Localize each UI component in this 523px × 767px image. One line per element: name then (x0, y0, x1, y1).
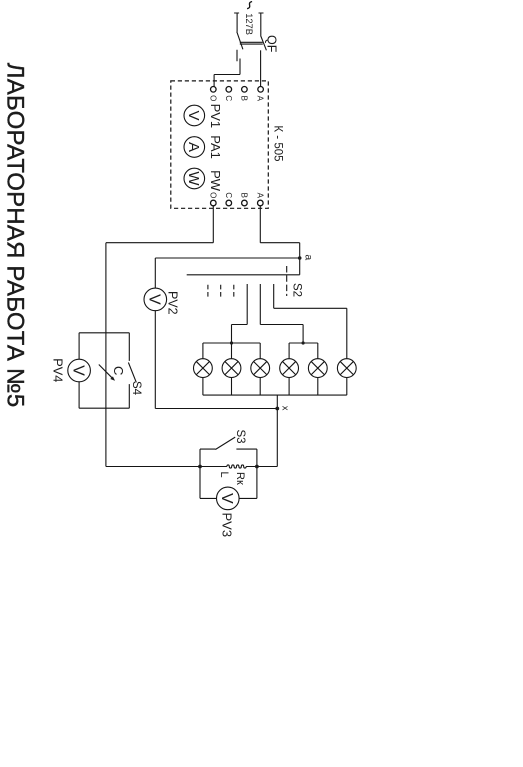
svg-text:V: V (146, 294, 163, 305)
svg-text:V: V (185, 110, 202, 120)
svg-text:W: W (185, 171, 202, 186)
svg-text:C: C (111, 366, 126, 375)
svg-text:Rк: Rк (234, 472, 246, 485)
svg-text:PV3: PV3 (219, 513, 234, 538)
svg-text:В: В (240, 193, 249, 198)
svg-text:127В: 127В (244, 13, 254, 35)
svg-text:ЛАБОРАТОРНАЯ РАБОТА №5: ЛАБОРАТОРНАЯ РАБОТА №5 (1, 63, 28, 408)
svg-text:a: a (302, 254, 314, 260)
svg-text:V: V (69, 365, 86, 376)
svg-text:PV2: PV2 (166, 291, 180, 315)
svg-text:A: A (185, 142, 202, 152)
svg-text:PW: PW (208, 170, 223, 192)
svg-text:С: С (224, 192, 233, 198)
svg-text:S2: S2 (290, 283, 302, 297)
svg-text:V: V (218, 493, 235, 504)
svg-text:S3: S3 (234, 430, 246, 444)
svg-text:С: С (224, 95, 233, 101)
svg-text:О: О (208, 95, 217, 101)
svg-text:К - 505: К - 505 (271, 125, 283, 161)
svg-text:В: В (240, 96, 249, 101)
svg-text:PA1: PA1 (208, 135, 223, 159)
svg-text:А: А (256, 96, 265, 102)
svg-text:х: х (279, 406, 290, 411)
svg-text:PV4: PV4 (50, 358, 65, 382)
svg-text:PV1: PV1 (208, 104, 223, 129)
svg-text:L: L (218, 472, 230, 478)
svg-text:О: О (208, 192, 217, 198)
svg-text:S4: S4 (130, 381, 142, 396)
svg-text:А: А (255, 193, 264, 199)
svg-text:QF: QF (265, 35, 279, 53)
